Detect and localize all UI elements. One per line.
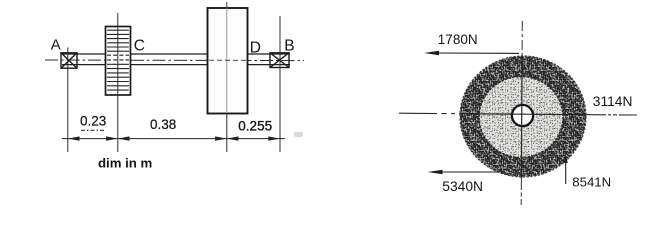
svg-text:C: C [134, 38, 145, 55]
leader arrow 8541N [564, 155, 568, 185]
pulley D extension line [226, 113, 228, 152]
dimension line [62, 138, 285, 140]
pulley web light disc [479, 77, 563, 158]
svg-text:3114N: 3114N [593, 94, 633, 109]
svg-text:0.38: 0.38 [150, 117, 176, 132]
shaft centerline [45, 59, 304, 62]
svg-text:1780N: 1780N [438, 32, 478, 47]
svg-text:0.255: 0.255 [238, 119, 272, 134]
force arrow 1780N [424, 51, 519, 56]
pulley web stipple overlay [480, 78, 562, 157]
svg-text:8541N: 8541N [572, 174, 611, 189]
pulley D body [208, 8, 248, 114]
bearing A centerline extension [67, 48, 69, 153]
pulley horizontal centerline right dashes [588, 114, 637, 116]
bearing B centerline extension [279, 16, 281, 152]
pulley rim stipple overlay [461, 57, 585, 176]
pulley horizontal centerline through wheel [459, 114, 588, 115]
shaft bottom line [62, 64, 290, 66]
svg-text:0.23: 0.23 [80, 113, 106, 128]
svg-text:A: A [51, 37, 61, 54]
bearing B [270, 53, 289, 68]
gear C centerline extension [117, 13, 119, 152]
scan smudge [294, 132, 303, 137]
svg-text:D: D [250, 39, 261, 56]
svg-text:5340N: 5340N [442, 179, 483, 194]
pulley horizontal centerline left dash-dot [399, 112, 459, 115]
shaft hole [512, 105, 533, 126]
pulley vertical centerline top dashes [521, 21, 523, 56]
shaft centerline through pulley [209, 59, 247, 61]
shaft top line [62, 53, 290, 55]
pulley D centerline inside [226, 8, 228, 113]
pulley D centerline above [226, 2, 228, 8]
gear C teeth hatching [107, 30, 129, 90]
pulley vertical centerline bottom [520, 178, 522, 205]
gear C body [106, 27, 131, 96]
bearing A [61, 53, 77, 68]
dashed underline [81, 129, 105, 131]
svg-text:dim in m: dim in m [98, 156, 152, 171]
pulley rim stippled ring [460, 56, 586, 177]
svg-text:B: B [284, 38, 294, 55]
pulley vertical centerline through wheel [520, 56, 523, 178]
dimension arrowheads [68, 136, 280, 140]
force arrow 5340N [428, 170, 501, 175]
